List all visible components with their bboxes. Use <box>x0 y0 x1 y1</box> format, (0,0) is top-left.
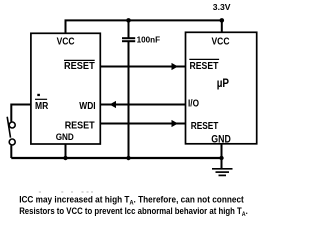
svg-text:WDI: WDI <box>79 100 95 112</box>
wire 3.3V to uP VCC pin <box>221 20 223 32</box>
svg-text:I/O: I/O <box>188 97 199 109</box>
svg-text:µP: µP <box>217 78 230 90</box>
wire I/O to WDI <box>100 104 185 106</box>
arrow into uP RESET lower <box>172 120 179 127</box>
svg-text:GND: GND <box>211 133 231 145</box>
ground symbol <box>212 169 233 176</box>
svg-text:RESET: RESET <box>64 60 95 72</box>
wire uP GND lead <box>221 144 223 169</box>
node 3.3V junction <box>220 18 225 23</box>
svg-text:RESET: RESET <box>191 120 219 132</box>
faint leader dots artifact <box>39 191 93 192</box>
svg-text:GND: GND <box>56 131 74 142</box>
svg-text:VCC: VCC <box>212 36 230 48</box>
wire VCC top rail <box>66 20 222 33</box>
wire RESET to RESET (top) <box>100 66 185 68</box>
arrow into uP RESET <box>172 63 179 70</box>
wire RESET to RESET (bottom) <box>100 123 185 125</box>
footnote dot above MR <box>37 94 40 96</box>
svg-text:100nF: 100nF <box>137 36 161 45</box>
svg-text:ICC may increased at high TA.: ICC may increased at high TA. Therefore,… <box>19 195 244 207</box>
svg-text:RESET: RESET <box>190 60 219 72</box>
svg-text:RESET: RESET <box>65 120 95 132</box>
node U1 GND junction <box>63 156 67 160</box>
switch S1 <box>7 117 15 158</box>
svg-text:VCC: VCC <box>57 36 75 48</box>
wire MR to switch <box>11 105 31 122</box>
node cap top junction <box>126 18 131 23</box>
svg-text:Resistors to VCC to prevent Ic: Resistors to VCC to prevent Icc abnormal… <box>19 206 248 218</box>
capacitor C1 100nF <box>122 20 135 158</box>
wire U1 GND lead <box>65 144 67 158</box>
node cap bottom junction <box>126 156 130 160</box>
wire ground rail bottom <box>11 157 221 159</box>
supervisor IC U1 box <box>31 33 100 144</box>
arrow into WDI <box>110 101 117 108</box>
svg-text:MR: MR <box>35 100 49 112</box>
microprocessor uP box <box>186 32 257 144</box>
svg-text:3.3V: 3.3V <box>213 2 231 12</box>
node uP GND junction <box>219 156 223 160</box>
